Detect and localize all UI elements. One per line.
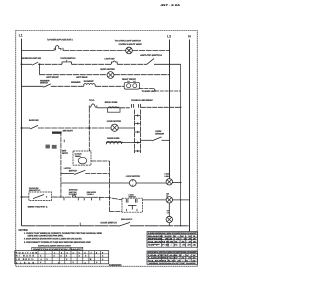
connector pin pair 4 — [135, 142, 141, 144]
connector pin pair 2 — [135, 123, 141, 125]
label indicator 1 — [165, 173, 171, 178]
relay contacts K1 — [132, 104, 141, 108]
switch door dashed enclosure — [29, 192, 52, 201]
connector pin pair 5 — [135, 150, 141, 152]
wire rung 2b right — [114, 74, 169, 76]
label door sw above box — [29, 187, 41, 192]
wire bottom rung right — [130, 225, 190, 227]
svg-text:SIZES AND CONNECTORS PER SPEC.: SIZES AND CONNECTORS PER SPEC. — [28, 235, 64, 238]
wire L1 rail — [21, 39, 23, 226]
svg-text:LEFT FRONT: LEFT FRONT — [46, 76, 59, 79]
junction branch rung2 — [39, 63, 41, 65]
circuit breaker broil — [89, 104, 97, 108]
connector pin pair 1 — [135, 115, 141, 117]
lamp oven light — [126, 47, 133, 54]
svg-text:ELEMENT: ELEMENT — [84, 80, 95, 83]
svg-text:LATCH: LATCH — [64, 167, 71, 170]
wire drop x109 — [109, 161, 111, 212]
wire rung 1 right — [132, 49, 169, 51]
wire rung 5 a — [97, 107, 108, 109]
wire latch a — [61, 173, 74, 175]
wire latch b — [85, 173, 109, 175]
wire rung 3 c — [95, 85, 124, 87]
table switch chart body — [15, 247, 109, 264]
svg-text:SURFACE ELEMENT SWITCH CHART: SURFACE ELEMENT SWITCH CHART — [38, 244, 72, 247]
table wire chart header shade — [147, 232, 197, 235]
table switch chart marks — [40, 251, 104, 264]
wire rung 4 a — [22, 127, 31, 129]
receptacle twin circles — [124, 81, 139, 89]
wire lock rung b — [52, 197, 122, 200]
wire drop x61 — [60, 132, 62, 198]
label oven sensor — [155, 130, 164, 136]
svg-text:TIMER: TIMER — [75, 155, 82, 158]
svg-text:SWITCH: SWITCH — [129, 196, 137, 199]
wire pigtail hook — [153, 89, 155, 92]
wire rung 2 a — [22, 63, 33, 65]
switch door plunger — [62, 60, 72, 64]
motor convection — [111, 124, 118, 131]
junction rung4 at L1 — [21, 127, 23, 129]
wire lock motor rung right — [136, 182, 166, 184]
svg-text:SEE: SEE — [62, 150, 67, 153]
svg-text:LOCK MOTOR: LOCK MOTOR — [126, 175, 140, 178]
wire bake to connector — [106, 142, 140, 144]
svg-text:SWITCH: SWITCH — [69, 170, 78, 173]
svg-text:LIGHT: LIGHT — [165, 175, 171, 178]
label contact marks — [46, 145, 57, 149]
wire lock box bottom stub — [110, 211, 123, 213]
junction lock rung L1 — [21, 196, 23, 198]
motor surface heater M1 — [107, 72, 114, 79]
terminal tick 3 — [83, 197, 85, 200]
wire lamp1 to mid bus — [173, 182, 181, 184]
svg-text:TO POWER SUPPLY SEE NOTE 1: TO POWER SUPPLY SEE NOTE 1 — [47, 39, 73, 42]
svg-text:3. DISCONNECT POWER AT FUSE B: 3. DISCONNECT POWER AT FUSE BOX BEFORE S… — [24, 241, 91, 244]
table lower right outline — [147, 251, 198, 264]
lamp indicator 1 — [166, 179, 172, 185]
wire rung 3 b — [51, 85, 84, 87]
svg-text:LIGHT SW: LIGHT SW — [105, 58, 116, 61]
wire lamp2 to N — [173, 199, 190, 201]
wire rung 2 c — [72, 63, 112, 65]
svg-text:CLEAN A-C X - X -: CLEAN A-C X - X - X — [148, 259, 198, 262]
terminal tick near drop x61 — [63, 140, 65, 143]
junction bottom mid bus — [180, 225, 181, 226]
svg-text:TO SURF UNIT: TO SURF UNIT — [142, 90, 157, 93]
wire rung 4 b — [38, 127, 111, 129]
svg-text:BROIL ELEM: BROIL ELEM — [105, 101, 118, 104]
label indicator 2 — [166, 192, 169, 197]
svg-text:1 AND 4: 1 AND 4 — [87, 193, 95, 196]
wire rung 1 left — [22, 49, 55, 51]
svg-text:BAKE 1-2 X - X -: BAKE 1-2 X - X - X 1 — [148, 235, 198, 238]
wire mid return bus — [180, 64, 182, 226]
terminal tick bottom — [79, 223, 81, 226]
terminal tick 4 — [90, 197, 92, 200]
wire lock box to lamp2 — [143, 199, 167, 201]
svg-text:316022033: 316022033 — [109, 264, 122, 267]
terminal tick 5 — [99, 197, 101, 200]
svg-text:DOUBLE LINE BREAK: DOUBLE LINE BREAK — [131, 99, 153, 102]
svg-text:2. DOOR SWITCH SHOWN WITH DOO: 2. DOOR SWITCH SHOWN WITH DOOR CLOSED AN… — [24, 238, 82, 241]
svg-text:L1: L1 — [19, 34, 23, 38]
junction rung4 feeder — [88, 127, 90, 129]
svg-text:WARMER: WARMER — [71, 81, 81, 84]
svg-text:CLEAN 5-6 X - X -: CLEAN 5-6 X - X - X 3 — [148, 240, 198, 243]
timer TOD box — [73, 151, 91, 165]
switch bake — [30, 125, 38, 129]
svg-text:RIGHT FRONT: RIGHT FRONT — [122, 78, 137, 81]
wire rung 5 c — [141, 106, 181, 108]
wire rung 2 d — [117, 63, 146, 65]
svg-text:SWITCH: SWITCH — [40, 82, 49, 85]
table lower right header shade — [147, 251, 197, 254]
svg-text:L2: L2 — [167, 35, 171, 39]
table lower right rows text — [148, 254, 198, 265]
svg-text:BAKE ELEM: BAKE ELEM — [107, 137, 119, 140]
wire branch down — [39, 64, 41, 74]
wire lock motor rung left — [61, 182, 129, 184]
svg-text:WIRING DIAGRAM ELECTRIC RANGE: WIRING DIAGRAM ELECTRIC RANGE — [149, 262, 197, 265]
wire bottom rung left — [22, 225, 119, 227]
svg-text:LO BROIL: LO BROIL — [16, 258, 35, 261]
junction rung5 mid bus — [180, 107, 181, 108]
wire N rail — [189, 40, 191, 232]
junction dot rung2 at L1 — [21, 63, 23, 65]
svg-text:BAKE SW: BAKE SW — [29, 119, 40, 122]
svg-text:NOTES:: NOTES: — [19, 229, 29, 232]
svg-text:DOOR SWITCH: DOOR SWITCH — [101, 221, 118, 224]
svg-text:LOCKED C-D - X - X: LOCKED C-D - X - X X — [148, 257, 197, 260]
svg-text:CONV MOTOR: CONV MOTOR — [107, 120, 122, 123]
svg-text:ANTI-TIP SWITCH: ANTI-TIP SWITCH — [140, 54, 162, 57]
table switch chart header — [32, 247, 84, 251]
heater bake element — [106, 141, 123, 144]
svg-text:OVEN LIGHT 40W: OVEN LIGHT 40W — [119, 43, 143, 46]
wire rung 2 b — [38, 63, 62, 65]
terminal tick 1 — [63, 197, 65, 200]
wire sensor b — [162, 139, 170, 141]
svg-text:SEE NOTE: SEE NOTE — [63, 130, 74, 133]
heater element warmer — [84, 84, 96, 87]
svg-text:417 . 2 24: 417 . 2 24 — [161, 4, 181, 7]
wire L2 rail — [169, 40, 171, 179]
svg-text:UNLOCK A-B X - X -: UNLOCK A-B X - X - X — [148, 254, 197, 257]
wire lamp chain a — [168, 203, 170, 216]
junction lamp2 bus crossing — [180, 199, 181, 200]
motor lock — [129, 180, 136, 187]
svg-text:LEFT REAR: LEFT REAR — [76, 76, 88, 79]
junction lamp1 bus — [180, 182, 181, 183]
svg-text:OFF 7-8 - X - X: OFF 7-8 - X - X X 4 — [148, 244, 199, 247]
connector column right pin rail — [140, 110, 142, 154]
table switch chart extra marks — [41, 255, 105, 265]
wire rung 3 d — [140, 88, 153, 90]
table switch chart row labels — [16, 251, 38, 264]
wire rung 3 a — [22, 85, 44, 87]
svg-text:1. CHECK THAT WIRING IS CORRE: 1. CHECK THAT WIRING IS CORRECT, CONNECT… — [24, 232, 103, 235]
relay lock switch box — [122, 198, 143, 212]
wire feeder vertical x89 — [88, 108, 90, 151]
relay coil box — [52, 132, 62, 134]
heater broil element — [107, 107, 120, 112]
wire TOD out — [91, 160, 110, 162]
table wire chart outline — [147, 232, 198, 248]
terminal tick 2 — [77, 197, 79, 200]
wire rung 4 c — [118, 127, 135, 129]
svg-text:TO OVEN LIGHT SWITCH: TO OVEN LIGHT SWITCH — [115, 39, 142, 42]
switch bottom — [119, 222, 131, 226]
switch latch — [74, 170, 85, 174]
label surface units right — [87, 191, 97, 196]
wire rung 1 middle — [63, 49, 126, 51]
switch lamp hump — [112, 61, 118, 64]
switch sensor — [152, 137, 162, 141]
svg-text:BROIL 3-4 - X - X: BROIL 3-4 - X - X X 2 — [148, 238, 198, 241]
wire rung 2b left — [40, 74, 108, 76]
border frame — [16, 31, 198, 267]
switch S1 — [32, 62, 38, 65]
junction bake connector — [140, 142, 141, 143]
svg-text:SEE NOTE 1: SEE NOTE 1 — [28, 206, 50, 209]
svg-text:DOOR LATCH SW POSITION CHART: DOOR LATCH SW POSITION CHART — [148, 251, 198, 254]
label indicator 3 — [167, 209, 170, 214]
wire rung 5 b — [120, 107, 130, 109]
circuit breaker CB1 — [54, 46, 63, 51]
svg-text:SURF HEATER: SURF HEATER — [100, 68, 115, 71]
wire rung 3 e — [155, 90, 181, 92]
lamp indicator 2 — [166, 197, 172, 203]
label lock sw 2 lines — [129, 193, 137, 198]
label warmer switch 2 lines — [40, 79, 50, 84]
table wire chart rows text — [148, 235, 199, 247]
label aux marks — [62, 150, 68, 156]
lamp indicator 3 — [166, 216, 172, 222]
wire lock rung a — [22, 196, 29, 198]
connector pin pair 3 — [135, 131, 141, 133]
page background — [0, 0, 218, 285]
label surface units 3 lines — [69, 189, 79, 196]
switch anti-tip — [147, 59, 155, 65]
svg-text:NOTE: NOTE — [62, 152, 68, 155]
wire rung 2 e — [154, 63, 181, 65]
svg-text:T.O.D.: T.O.D. — [89, 99, 95, 102]
wire sensor a — [141, 139, 153, 141]
connector column left pin rail — [134, 110, 136, 154]
svg-text:LINE BREAK SW POSITION CHART: LINE BREAK SW POSITION CHART — [148, 232, 198, 235]
svg-text:SURFACE UNIT SW: SURFACE UNIT SW — [22, 57, 42, 60]
svg-text:SEE NOTE 2: SEE NOTE 2 — [121, 218, 133, 221]
svg-text:DOOR SWITCH: DOOR SWITCH — [61, 57, 76, 60]
switch warmer — [43, 84, 50, 87]
switch hump lock rung — [72, 195, 76, 197]
wire lamp chain b — [168, 223, 170, 226]
svg-text:SENSOR: SENSOR — [155, 132, 164, 135]
